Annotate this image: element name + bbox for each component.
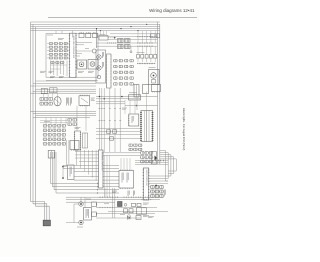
component: check connector circle [124,204,127,207]
cluster: small connector pair [68,119,71,122]
cluster: right connector grid [151,186,154,189]
cluster: center connector grid [114,60,117,62]
wires: fused feeds y128-135 [96,128,141,130]
component: relay assembly F3 [119,171,134,189]
svg-text:LIGHTING CONTROL UNIT: LIGHTING CONTROL UNIT [145,170,147,186]
cluster: hatched connectors [118,39,124,43]
component: dashed interlock [99,36,108,41]
wires: cluster feeds y159-166 [135,160,168,162]
wires: right harness verticals [160,151,168,182]
wires: F3 top feeds [120,158,122,171]
connector: tall multi-pin strip D5 [141,111,153,142]
connector: vertical strip right of headlight [107,54,112,88]
wires: harness bundle to rear [63,164,119,166]
component: vertical boxes row y84-97 [134,85,139,98]
component: small relays row [79,33,84,38]
frame: top bus lines [31,21,161,23]
wires: fuse grid rows to relay box [47,43,50,45]
wires: fan from F4 to grid [149,175,168,177]
component: bottom diodes [128,216,131,219]
svg-text:Exterior lights - from August: Exterior lights - from August 2010 (Part… [182,108,185,150]
component: left headlight assembly [96,50,106,83]
component: small boxes y203 [132,203,136,206]
ticks: lamp connector pins [96,203,98,206]
wires: verticals below fuse grid [50,61,52,75]
frame: left bus lines [30,22,32,202]
cluster: connectors left [40,98,43,101]
component: radiator fan motor box [88,60,98,70]
component: small relays bottom [124,209,128,213]
wires: verticals off bus [42,93,44,98]
component: tall control unit right F4 [143,168,149,200]
component: small box E1b [48,151,55,159]
box: under-hood fuse/relay container [46,34,98,78]
component: fuse row [137,55,140,59]
wires: horizontal run y90-93 [36,80,97,82]
wires: horizontals y33.8 [110,33,158,35]
label: lamp name (vertical) [66,98,68,106]
component: rear lamp cluster left [79,202,83,206]
junctions: bus taps dots [100,30,101,31]
ticks: inline connectors on bundle [97,183,99,185]
wires: drops from bus into middle [100,31,102,36]
wires: horizontals above F1 right [103,152,141,154]
component: diode pack [118,202,123,207]
label: vertical text bottom [127,191,129,197]
connector: harness end plug [43,220,50,226]
wires: DRL feed verticals [65,140,67,167]
wires: partial rows above bank [40,120,68,122]
component: relay middle [79,96,90,106]
ticks: bottom connector row [123,197,125,198]
wires: drops bus to feeds [137,31,139,43]
cluster: lower connector [129,144,132,146]
component: DRL control with dots [68,165,75,180]
frame: right bus lines [157,22,159,164]
wires: bottom runs [66,196,160,198]
wires: relay box right feeds [76,42,92,44]
cluster: extra fuse row below grid [51,62,54,64]
wires: horizontals y36-39 [97,36,158,38]
wires: horizontal feeds y43-46 [97,42,158,44]
wires: verticals bottom-center [112,188,114,218]
wires: comb below fuse row [137,63,156,65]
ticks: bottom connectors [99,197,101,198]
component: bus-top relays right [151,34,156,38]
wires: bus y111-117 [31,111,97,113]
cluster: fuse grid left of relay box [50,43,53,45]
component: connector with dark wedge [152,152,157,165]
wires: verticals dropping to bundle [76,150,78,165]
component: washer motor right [149,70,160,85]
wires: horizontals right of E1 [75,151,100,153]
component: condenser fan motor box [77,60,87,69]
wires: verticals center zone [124,100,126,114]
wires: verticals to pin stack [85,106,87,131]
cluster: connector grid mid-right [141,152,144,155]
component: flasher relay [129,95,141,100]
header rule [48,17,197,19]
cluster: connector boxes y88-94 [41,88,47,93]
component: integrated control unit (tall) [99,150,104,188]
component: small box E1 [70,141,79,150]
component: control box D4 [129,114,139,126]
svg-text:Wiring diagrams 12•41: Wiring diagrams 12•41 [149,8,195,13]
ticks: bus taps [137,42,139,43]
wires: verticals down from headlight zone [98,88,100,152]
component: inline fuses [107,130,111,133]
component: relay box y208 [137,208,147,214]
component: front turn signal lamp (oval) [54,97,61,106]
wires: drops from top bus [55,31,57,34]
cluster: big connector bank lower-left [44,125,47,128]
wire: left harness step down [31,202,45,222]
wires: horizontals y96-106 [96,96,158,98]
cluster: pin stack [75,131,81,150]
wires: lamp cluster feeds [80,197,82,202]
component: under-dash fuse/relay box (tall) [70,33,77,77]
component: DRL resistor (circle) [92,49,96,53]
